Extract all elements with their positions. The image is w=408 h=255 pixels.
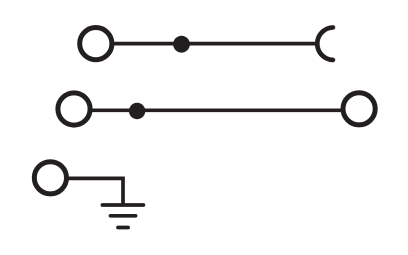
ground earth symbol bar 3 <box>118 226 128 230</box>
wire middle feed-through conductor <box>78 108 355 112</box>
terminal clamp circle bottom-left <box>34 162 66 194</box>
wire top feed-through conductor <box>100 42 318 46</box>
ground earth symbol bar 1 <box>102 203 143 207</box>
terminal clamp circle middle-left <box>58 93 90 125</box>
terminal clamp circle top-left <box>80 27 112 59</box>
node junction dot top <box>173 36 190 53</box>
ground earth symbol bar 2 <box>111 214 136 218</box>
terminal clamp circle middle-right <box>343 93 375 125</box>
node junction dot middle <box>129 103 145 119</box>
socket contact open-circle top-right <box>317 27 333 59</box>
wire ground connection with corner <box>55 178 123 206</box>
